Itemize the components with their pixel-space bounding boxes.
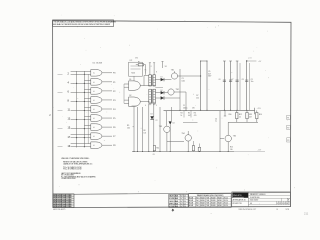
- svg-text:N1: N1: [129, 79, 131, 81]
- svg-text:C7: C7: [231, 79, 233, 81]
- svg-text:2SC458: 2SC458: [211, 205, 216, 207]
- svg-text:BC148: BC148: [189, 203, 193, 205]
- svg-text:124: 124: [184, 196, 186, 198]
- svg-text:IC2: IC2: [130, 60, 133, 62]
- svg-text:100: 100: [144, 132, 147, 134]
- svg-text:CAPACITOR TRIM. APERATURE 4.5: CAPACITOR TRIM. APERATURE 4.5: [63, 163, 92, 166]
- svg-text:124: 124: [184, 206, 186, 208]
- svg-text:(+5V): (+5V): [248, 58, 252, 60]
- svg-text:2k2: 2k2: [196, 97, 199, 99]
- svg-text:BC548: BC548: [201, 203, 205, 205]
- svg-text:1u: 1u: [215, 121, 217, 123]
- svg-text:BC168: BC168: [218, 200, 222, 202]
- svg-text:06: 06: [250, 203, 252, 205]
- svg-text:TUN: TUN: [206, 203, 209, 205]
- svg-text:*R2 = 39 OHM 5% 1/4 W: *R2 = 39 OHM 5% 1/4 W: [63, 169, 82, 171]
- svg-text:PR 4822 726: PR 4822 726: [233, 203, 242, 205]
- svg-text:211: 211: [304, 212, 309, 216]
- svg-text:2SC14: 2SC14: [224, 198, 229, 200]
- svg-text:R6: R6: [194, 113, 196, 115]
- svg-text:C1: C1: [183, 105, 185, 107]
- svg-text:TUN: TUN: [206, 198, 209, 200]
- svg-text:C3: C3: [182, 78, 184, 80]
- svg-text:5V6: 5V6: [135, 57, 138, 59]
- svg-text:TUN: TUN: [206, 200, 209, 202]
- svg-text:P2: P2: [287, 128, 289, 130]
- svg-text:D3: D3: [151, 114, 153, 116]
- svg-text:100n: 100n: [182, 80, 186, 82]
- svg-text:D4: D4: [173, 123, 175, 125]
- svg-text:D2: D2: [161, 90, 163, 92]
- svg-text:R13: R13: [249, 114, 252, 116]
- svg-text:N2: N2: [129, 95, 131, 97]
- svg-text:2SC458: 2SC458: [211, 203, 216, 205]
- svg-text:5/78: 5/78: [286, 209, 289, 211]
- svg-text:BC168: BC168: [218, 198, 222, 200]
- svg-text:TS5: TS5: [233, 135, 236, 137]
- svg-text:4B28NM18R248A7-1284B: 4B28NM18R248A7-1284B: [53, 205, 72, 208]
- svg-text:2SC14: 2SC14: [224, 200, 229, 202]
- svg-text:R12: R12: [239, 114, 242, 116]
- svg-text:2SC14: 2SC14: [224, 205, 229, 207]
- svg-text:10u: 10u: [251, 81, 254, 83]
- svg-text:4822 230 40271: 4822 230 40271: [53, 209, 65, 211]
- svg-text:C2: C2: [156, 120, 158, 122]
- svg-text:2N4: 2N4: [196, 198, 199, 200]
- svg-text:R4: R4: [181, 113, 183, 115]
- svg-text:BC148: BC148: [189, 200, 193, 202]
- svg-text:9-7: 9-7: [180, 198, 182, 200]
- svg-text:470: 470: [194, 115, 197, 117]
- svg-text:25V: 25V: [192, 108, 195, 110]
- svg-text:2SC458: 2SC458: [211, 200, 216, 202]
- svg-text:4k7: 4k7: [188, 115, 191, 117]
- svg-text:2SC14: 2SC14: [224, 203, 229, 205]
- svg-text:R11: R11: [156, 148, 159, 150]
- svg-text:9-7: 9-7: [180, 196, 182, 198]
- svg-text:R7: R7: [196, 95, 198, 97]
- svg-text:BC548: BC548: [201, 198, 205, 200]
- svg-text:124: 124: [184, 198, 186, 200]
- svg-text:TS1: TS1: [171, 69, 174, 71]
- svg-text:BC148: BC148: [189, 198, 193, 200]
- svg-text:9-7: 9-7: [180, 206, 182, 208]
- svg-text:124: 124: [184, 203, 186, 205]
- svg-text:124: 124: [184, 201, 186, 203]
- svg-text:3101 94457: 3101 94457: [250, 200, 259, 202]
- svg-text:2N4: 2N4: [196, 203, 199, 205]
- svg-text:TS3: TS3: [159, 126, 162, 128]
- svg-text:10k: 10k: [127, 128, 130, 130]
- svg-text:1k: 1k: [239, 117, 241, 119]
- svg-text:7: 7: [289, 203, 290, 205]
- svg-text:9-7: 9-7: [180, 203, 182, 205]
- svg-text:7406: 7406: [131, 73, 135, 75]
- svg-text:BC168: BC168: [218, 205, 222, 207]
- svg-text:R8: R8: [144, 130, 146, 132]
- svg-text:TS2: TS2: [176, 89, 179, 91]
- svg-text:2200u: 2200u: [183, 108, 188, 110]
- svg-text:UNLESS OTHERWISE SPECIFIED:: UNLESS OTHERWISE SPECIFIED:: [61, 158, 90, 160]
- svg-text:TS4: TS4: [182, 133, 185, 135]
- svg-text:BC168: BC168: [218, 203, 222, 205]
- svg-text:1k5: 1k5: [230, 149, 233, 151]
- svg-text:BC548: BC548: [201, 200, 205, 202]
- svg-text:C9: C9: [251, 79, 253, 81]
- svg-text:1k: 1k: [181, 115, 183, 117]
- svg-text:C4: C4: [215, 118, 217, 120]
- svg-text:OTHER SIDE VIEW: OTHER SIDE VIEW: [61, 178, 76, 180]
- svg-text:R5: R5: [188, 113, 190, 115]
- svg-text:BC148: BC148: [189, 205, 193, 207]
- svg-text:T1: T1: [145, 70, 147, 72]
- svg-text:BC548: BC548: [201, 205, 205, 207]
- svg-text:2N4: 2N4: [196, 200, 199, 202]
- svg-text:S1: S1: [165, 66, 167, 68]
- svg-text:R10: R10: [229, 114, 232, 116]
- svg-text:TUN: TUN: [206, 205, 209, 207]
- svg-text:IC1 74LS08: IC1 74LS08: [93, 63, 103, 65]
- svg-text:R15: R15: [230, 147, 233, 149]
- svg-text:R14: R14: [259, 114, 262, 116]
- svg-text:C8: C8: [242, 79, 244, 81]
- svg-text:C6: C6: [219, 79, 221, 81]
- svg-text:D1: D1: [161, 77, 163, 79]
- svg-text:2SC458: 2SC458: [211, 198, 216, 200]
- svg-text:4k7: 4k7: [249, 117, 252, 119]
- svg-text:R1: R1: [138, 62, 140, 64]
- svg-text:B 4678 000: B 4678 000: [250, 197, 259, 199]
- svg-text:9399 254 37601 4 OCT: 9399 254 37601 4 OCT: [239, 209, 257, 211]
- svg-text:P1: P1: [287, 118, 289, 120]
- svg-text:9-7: 9-7: [180, 201, 182, 203]
- svg-text:2N4: 2N4: [196, 205, 199, 207]
- svg-text:P3: P3: [287, 140, 289, 142]
